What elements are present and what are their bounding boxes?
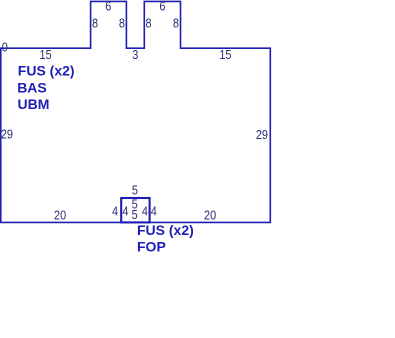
svg-text:29: 29	[256, 127, 268, 142]
svg-text:3: 3	[132, 47, 138, 62]
svg-text:15: 15	[219, 47, 231, 62]
svg-text:8: 8	[146, 16, 152, 31]
part outline with two top tabs	[1, 1, 271, 222]
svg-text:20: 20	[204, 207, 216, 222]
svg-text:5: 5	[132, 207, 138, 222]
svg-text:8: 8	[119, 16, 125, 31]
svg-text:4: 4	[142, 204, 148, 219]
svg-text:FUS (x2): FUS (x2)	[137, 222, 194, 238]
svg-text:FUS (x2): FUS (x2)	[18, 62, 75, 78]
svg-text:15: 15	[40, 47, 52, 62]
svg-text:4: 4	[112, 204, 118, 219]
svg-text:0: 0	[2, 40, 8, 55]
svg-text:6: 6	[105, 0, 111, 14]
svg-text:4: 4	[122, 204, 128, 219]
svg-text:BAS: BAS	[17, 79, 47, 95]
svg-text:4: 4	[151, 204, 157, 219]
svg-text:FOP: FOP	[137, 238, 166, 254]
svg-text:6: 6	[159, 0, 165, 14]
svg-text:8: 8	[92, 16, 98, 31]
bottom connector box	[121, 198, 149, 222]
svg-text:20: 20	[54, 207, 66, 222]
svg-text:UBM: UBM	[18, 96, 50, 112]
svg-text:8: 8	[173, 16, 179, 31]
svg-text:29: 29	[1, 127, 13, 142]
